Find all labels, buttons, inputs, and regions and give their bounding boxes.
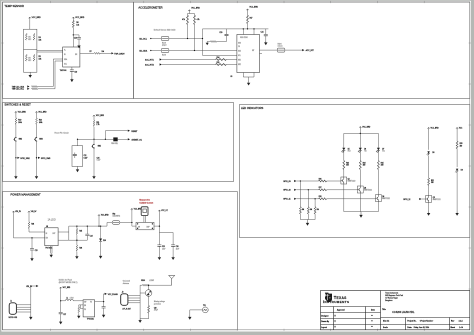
svg-text:D8: D8	[432, 152, 434, 154]
svg-text:VCC_BRD: VCC_BRD	[75, 17, 85, 19]
capacitor C25	[158, 233, 160, 256]
svg-text:I2C_SCL: I2C_SCL	[139, 38, 147, 40]
svg-text:R26: R26	[319, 178, 322, 180]
svg-text:CC3200 Current: CC3200 Current	[139, 201, 153, 204]
svg-text:GPIO_SW2: GPIO_SW2	[20, 158, 29, 160]
resistor R25 330	[377, 152, 379, 195]
svg-text:R33: R33	[460, 143, 463, 145]
wire reset node row	[78, 138, 114, 140]
svg-text:330: 330	[346, 165, 349, 167]
wire + ground	[190, 310, 203, 316]
wire VO out	[95, 294, 105, 302]
wire EN pin	[29, 231, 45, 233]
jumper header J21	[141, 207, 148, 216]
power VCC_BRD reset	[93, 115, 95, 117]
svg-text:Drawn By: Drawn By	[321, 321, 329, 323]
svg-text:4.7uH: 4.7uH	[70, 297, 74, 299]
svg-text:10k: 10k	[317, 209, 320, 211]
wire SCL loop to pin	[203, 29, 237, 56]
node	[73, 34, 74, 35]
svg-text:VCC_BRD: VCC_BRD	[38, 111, 47, 113]
svg-text:MMBT2222: MMBT2222	[433, 199, 441, 201]
wire	[60, 289, 62, 312]
svg-text:D6: D6	[364, 149, 366, 151]
svg-text:R23: R23	[346, 162, 349, 164]
svg-text:U8: U8	[230, 76, 232, 78]
svg-text:Measure the: Measure the	[139, 199, 150, 202]
svg-text:Scale: Scale	[383, 327, 388, 329]
svg-text:VIN_5V: VIN_5V	[15, 211, 21, 213]
svg-text:Friday, June 20, 2014: Friday, June 20, 2014	[414, 327, 429, 329]
ground	[77, 166, 79, 168]
svg-text:330: 330	[381, 165, 384, 167]
transistor Q2	[341, 177, 347, 184]
svg-text:C23: C23	[35, 250, 38, 252]
wire	[29, 19, 31, 29]
svg-text:1A LDO: 1A LDO	[48, 219, 56, 222]
svg-text:R15: R15	[217, 62, 220, 64]
svg-text:VIN_5V: VIN_5V	[31, 211, 37, 213]
svg-text:U.FL-R-SMT: U.FL-R-SMT	[122, 308, 131, 310]
pulldown resistor R30	[307, 190, 309, 220]
power VCC_BRD LEDs	[359, 127, 361, 129]
resistor R26	[319, 180, 327, 182]
svg-text:VCC_BRD: VCC_BRD	[191, 7, 200, 9]
svg-text:2.7k: 2.7k	[96, 124, 99, 126]
boost converter U10	[83, 300, 95, 317]
svg-text:ACC_INT2: ACC_INT2	[145, 63, 154, 66]
wire pins	[128, 296, 140, 303]
resistor R34	[28, 213, 30, 232]
title block frame	[321, 291, 470, 330]
resistor R7 on DRDY output	[80, 52, 111, 54]
svg-text:Bangalore: Bangalore	[385, 300, 392, 302]
section box: SWITCHES & RESET	[3, 103, 234, 182]
svg-text:SCL: SCL	[238, 55, 241, 57]
svg-text:10k: 10k	[28, 58, 31, 60]
wire TVS	[140, 285, 149, 305]
svg-text:R12 0: R12 0	[162, 43, 166, 45]
svg-text:MMBT2222: MMBT2222	[348, 181, 356, 183]
svg-text:Default Sensor Addr 0x18: Default Sensor Addr 0x18	[154, 28, 176, 31]
wire SCL to U7	[38, 61, 63, 89]
svg-text:I2C_SDA: I2C_SDA	[139, 49, 148, 52]
svg-text:TMP_DRDY: TMP_DRDY	[114, 53, 125, 55]
svg-text:GPIO_SW3: GPIO_SW3	[41, 158, 50, 160]
resistor R14	[216, 59, 227, 61]
svg-text:SW3: SW3	[39, 139, 43, 141]
svg-text:VCC_BRD: VCC_BRD	[249, 7, 258, 9]
svg-text:TPS79601: TPS79601	[45, 248, 52, 250]
svg-text:IN: IN	[64, 54, 66, 56]
ground	[247, 81, 250, 85]
power VCC_BRD col A	[427, 127, 429, 129]
svg-text:U9: U9	[46, 226, 48, 228]
svg-text:INT2: INT2	[238, 64, 241, 66]
connector J1	[9, 303, 16, 315]
svg-text:Approval: Approval	[337, 308, 345, 311]
section box: ACCELEROMETER	[134, 2, 470, 99]
svg-text:C24: C24	[97, 158, 100, 160]
svg-text:Q5: Q5	[433, 197, 435, 199]
svg-text:10k: 10k	[310, 209, 313, 211]
wire into shunt	[132, 223, 160, 227]
svg-text:R38 0: R38 0	[141, 280, 145, 282]
svg-text:TP1: TP1	[203, 305, 206, 307]
svg-text:VCC_BRD: VCC_BRD	[134, 208, 142, 210]
svg-text:Q3: Q3	[364, 187, 366, 189]
ground	[206, 42, 209, 46]
svg-text:GPIO_09: GPIO_09	[283, 181, 291, 183]
resistor R24 330	[359, 152, 361, 186]
capacitor C21	[265, 29, 267, 41]
wire riser	[98, 217, 100, 227]
resistor R33	[456, 130, 458, 168]
resistor R11 4.7k	[194, 15, 196, 24]
resistor R21	[93, 117, 95, 144]
svg-text:INT1: INT1	[238, 60, 241, 62]
shunt box R36	[136, 222, 154, 229]
svg-text:INSTRUMENTS: INSTRUMENTS	[323, 300, 350, 304]
resistor R20	[36, 114, 38, 137]
svg-text:4.7k: 4.7k	[197, 19, 200, 21]
svg-text:C26: C26	[176, 246, 179, 248]
svg-text:Rev: Rev	[451, 321, 454, 323]
svg-text:C27: C27	[63, 314, 66, 316]
svg-text:10k: 10k	[28, 37, 31, 39]
svg-text:SW2: SW2	[19, 139, 23, 141]
svg-text:VCC_BRD: VCC_BRD	[96, 115, 105, 117]
svg-text:330: 330	[460, 145, 463, 147]
ground	[29, 74, 32, 78]
wire INT out	[260, 50, 278, 53]
wire column	[139, 285, 141, 319]
power VCC_BRD mid	[98, 215, 100, 217]
ground	[102, 313, 105, 317]
capacitor C22 loop	[77, 139, 79, 145]
svg-text:INT: INT	[252, 50, 254, 52]
wire EN/FB stubs	[81, 305, 84, 309]
ground	[158, 256, 161, 260]
resistor R17	[247, 11, 249, 29]
svg-text:VO: VO	[90, 302, 92, 304]
connector J2 u.fl	[121, 294, 128, 306]
wire pulldown bus + ground	[300, 220, 315, 222]
LED D7 green	[376, 147, 380, 152]
test point TP1	[202, 307, 208, 313]
svg-text:100k: 100k	[39, 122, 43, 124]
ground	[77, 44, 80, 48]
svg-text:FB2: FB2	[113, 213, 116, 215]
resistor R19	[15, 114, 17, 137]
transistor Q3	[357, 186, 363, 193]
ground	[30, 257, 33, 261]
power VCC_BRD (left)	[29, 17, 31, 19]
power VCC_BRD EN	[28, 211, 30, 213]
section box: TEMP SENSOR	[3, 2, 134, 99]
svg-text:TEMP SENSOR: TEMP SENSOR	[4, 4, 24, 8]
svg-text:(BOOST MODE ONLY): (BOOST MODE ONLY)	[59, 282, 78, 284]
op-amp U7 TMP006	[63, 47, 80, 67]
svg-text:ACC_INT: ACC_INT	[306, 49, 315, 52]
svg-text:VCC_FLASH: VCC_FLASH	[108, 293, 119, 296]
svg-text:R25: R25	[381, 162, 384, 164]
capacitor C18	[73, 35, 79, 44]
svg-text:1k/100MHz: 1k/100MHz	[113, 215, 121, 217]
ground	[171, 256, 174, 260]
capacitor C19 under U7	[71, 67, 73, 78]
svg-text:R35: R35	[79, 231, 82, 233]
regulator U9	[45, 228, 58, 246]
section box: POWER MANAGEMENT	[3, 192, 238, 330]
wire	[93, 149, 95, 175]
svg-text:C21: C21	[261, 32, 264, 34]
svg-text:1 of 4: 1 of 4	[459, 327, 463, 329]
svg-text:100k: 100k	[18, 122, 22, 124]
svg-text:On-board: On-board	[123, 280, 130, 283]
svg-text:R34: R34	[31, 224, 34, 226]
svg-text:nRESET_OC: nRESET_OC	[131, 139, 142, 141]
switch SW3	[34, 137, 37, 142]
power VCC_BRD accel	[246, 9, 248, 11]
wire column + ground	[31, 286, 36, 316]
svg-text:10k: 10k	[39, 39, 42, 41]
svg-text:10uF: 10uF	[162, 248, 166, 250]
svg-text:R24: R24	[363, 162, 366, 164]
antenna ANT1	[169, 275, 175, 285]
svg-text:CS: CS	[238, 46, 240, 48]
svg-text:<Project Number>: <Project Number>	[420, 320, 434, 323]
svg-text:C25: C25	[162, 246, 165, 248]
svg-text:CV Raman Nagar: CV Raman Nagar	[385, 298, 398, 300]
svg-text:330: 330	[431, 182, 434, 184]
ground	[59, 320, 62, 324]
svg-text:10k: 10k	[76, 25, 79, 27]
svg-text:Designer: Designer	[321, 316, 329, 318]
svg-text:TMP006: TMP006	[60, 70, 67, 72]
svg-text:Reset Pin Circuit: Reset Pin Circuit	[55, 132, 70, 135]
ground	[35, 175, 38, 179]
resistor R8	[32, 86, 38, 88]
net ACC_INT	[302, 49, 304, 51]
resistor R9	[32, 88, 38, 90]
svg-text:MICRO-USB: MICRO-USB	[9, 317, 18, 319]
TI logo bug	[325, 293, 332, 303]
ground	[138, 319, 141, 323]
wire	[29, 72, 31, 73]
svg-text:D10: D10	[103, 240, 106, 242]
svg-text:VCC_BRD: VCC_BRD	[101, 215, 109, 217]
wire LDO out loop	[59, 223, 113, 241]
svg-text:Layout: Layout	[321, 326, 327, 329]
ferrite bead FB2	[120, 222, 132, 224]
svg-text:TPS61021: TPS61021	[87, 319, 94, 321]
svg-text:470pF: 470pF	[154, 310, 158, 312]
ground	[92, 175, 95, 179]
svg-text:D7: D7	[382, 149, 384, 151]
power VCC_BRD SW2	[15, 111, 17, 113]
diode D10 to gnd	[100, 226, 102, 254]
svg-text:VDD VDDIO: VDD VDDIO	[240, 37, 249, 39]
svg-text:SCL: SCL	[64, 64, 67, 66]
svg-text:VCC_BRD: VCC_BRD	[63, 287, 71, 289]
pulldown resistor R31	[314, 199, 316, 220]
node	[93, 139, 94, 140]
svg-text:86/3 Bagmane Tech Park: 86/3 Bagmane Tech Park	[385, 295, 403, 297]
svg-text:Antenna: Antenna	[123, 282, 129, 285]
svg-text:C19: C19	[74, 71, 77, 73]
svg-text:Date:: Date:	[407, 326, 412, 329]
resistor R38 match	[140, 284, 172, 286]
svg-text:EN: EN	[84, 305, 86, 307]
ground	[77, 314, 80, 318]
svg-text:R21: R21	[96, 122, 99, 124]
capacitor C20	[226, 29, 228, 42]
svg-text:R27: R27	[319, 187, 322, 189]
resistor R35 divider top	[76, 226, 78, 240]
svg-text:10k: 10k	[39, 58, 42, 60]
resistor R36 divider bottom	[76, 240, 78, 255]
resistor R23 330	[343, 152, 345, 177]
resistor R27	[319, 189, 327, 191]
svg-text:R7: R7	[90, 51, 92, 53]
TVS D11	[145, 290, 152, 297]
inductor L1	[61, 300, 83, 302]
LED D6 yellow	[358, 147, 362, 152]
wire U9 gnd + ground	[50, 246, 52, 254]
ground	[359, 214, 362, 218]
transistor Q5	[426, 195, 432, 202]
net nRESET out	[118, 138, 128, 140]
svg-text:GPIO_11: GPIO_11	[283, 199, 290, 201]
wire emitter + ground	[428, 202, 430, 211]
wire riser	[104, 131, 106, 140]
svg-text:0.1uF: 0.1uF	[97, 160, 101, 162]
svg-text:10k: 10k	[302, 209, 305, 211]
capacitor C24	[86, 226, 88, 240]
ground	[14, 175, 17, 179]
svg-text:D9: D9	[461, 169, 463, 171]
power VCC_BRD (right)	[72, 17, 74, 19]
svg-text:R32: R32	[431, 180, 434, 182]
svg-text:GPIO_12: GPIO_12	[403, 199, 410, 201]
svg-text:SW1: SW1	[98, 146, 102, 148]
power VCC_BRD header	[131, 208, 133, 210]
switch SW2	[13, 137, 16, 142]
svg-text:TMP_I2C_SCL: TMP_I2C_SCL	[12, 89, 24, 91]
svg-text:VCC_BRD: VCC_BRD	[362, 127, 371, 129]
net RESET out	[105, 130, 127, 132]
pulldown resistor R29	[299, 181, 301, 220]
ground	[70, 78, 73, 82]
svg-text:330: 330	[363, 165, 366, 167]
ground	[75, 255, 78, 259]
svg-text:CC3200 LAUNCHXL: CC3200 LAUNCHXL	[392, 311, 415, 314]
wire out rail	[159, 212, 173, 232]
accelerometer U8	[237, 35, 260, 73]
capacitor C26	[172, 233, 174, 256]
svg-text:SWITCHES & RESET: SWITCHES & RESET	[4, 103, 31, 107]
resistor R39 470	[148, 306, 150, 314]
svg-text:MMBT2222: MMBT2222	[382, 198, 390, 200]
svg-text:C24: C24	[90, 236, 93, 238]
svg-text:Sheet: Sheet	[450, 326, 455, 329]
svg-text:Project No.: Project No.	[407, 320, 416, 323]
power VCC_BRD SW3	[35, 111, 37, 113]
svg-text:R36: R36	[79, 248, 82, 250]
section box: LED INDICATORS	[240, 105, 470, 238]
svg-text:C29: C29	[154, 308, 157, 310]
transistor Q4	[376, 195, 382, 202]
resistor R15	[216, 64, 227, 66]
node / net GPIO_SW2	[15, 157, 16, 158]
svg-text:Q2: Q2	[348, 178, 350, 180]
wire pullup SDA	[194, 25, 196, 51]
jumper J20 (closed)	[113, 137, 117, 141]
capacitor C23 input	[31, 237, 33, 257]
svg-text:POWER MANAGEMENT: POWER MANAGEMENT	[11, 192, 42, 196]
svg-text:10k: 10k	[102, 51, 105, 53]
svg-text:J2: J2	[122, 292, 124, 294]
svg-text:R13 0: R13 0	[162, 55, 166, 57]
wire VDD pins	[243, 29, 254, 35]
net TMP_DRDY	[111, 52, 113, 54]
svg-text:Date: Date	[371, 308, 375, 311]
svg-text:R17: R17	[250, 18, 253, 20]
svg-text:0.1uF: 0.1uF	[84, 157, 88, 159]
wire	[15, 142, 17, 175]
svg-text:R28: R28	[319, 196, 322, 198]
resistor R6 10k	[72, 19, 74, 47]
thermistor block RT1	[24, 29, 37, 72]
resistor R37 fb	[79, 305, 81, 314]
svg-text:Q4: Q4	[382, 196, 384, 198]
wire emitter bus	[344, 184, 379, 214]
svg-text:VCC_BRD: VCC_BRD	[431, 127, 440, 129]
jumper R13	[161, 49, 169, 53]
wire pins	[16, 305, 30, 312]
svg-text:GPIO_10: GPIO_10	[283, 190, 291, 192]
node / net GPIO_SW3	[36, 157, 37, 158]
svg-text:C22: C22	[84, 155, 87, 157]
ground	[99, 255, 102, 259]
svg-text:V+: V+	[64, 50, 66, 52]
svg-text:DNP: DNP	[147, 227, 150, 229]
wire	[14, 213, 45, 238]
wire top rail	[203, 28, 269, 30]
wire to U7	[37, 50, 63, 52]
svg-text:C20: C20	[219, 32, 222, 34]
svg-text:VCC_BRD: VCC_BRD	[32, 17, 42, 19]
resistor R16	[207, 41, 226, 43]
svg-text:RESET: RESET	[131, 131, 138, 133]
svg-text:LED INDICATORS: LED INDICATORS	[241, 106, 264, 110]
switch SW1 RESET	[92, 144, 95, 149]
resistor R28	[319, 198, 327, 200]
svg-text:EN: EN	[46, 237, 48, 239]
power VCC_BRD col B	[456, 127, 458, 129]
svg-text:R18 0: R18 0	[278, 44, 282, 46]
svg-text:OUT: OUT	[52, 233, 55, 235]
svg-text:ACCELEROMETER: ACCELEROMETER	[138, 5, 162, 9]
svg-text:C18: C18	[74, 38, 77, 40]
net VCC_FLASH	[105, 293, 107, 295]
svg-text:Title: Title	[382, 308, 386, 311]
svg-text:MMBT2222: MMBT2222	[364, 190, 372, 192]
svg-text:R20: R20	[39, 120, 42, 122]
LED D5 red	[341, 147, 345, 152]
LED D8	[428, 130, 430, 150]
